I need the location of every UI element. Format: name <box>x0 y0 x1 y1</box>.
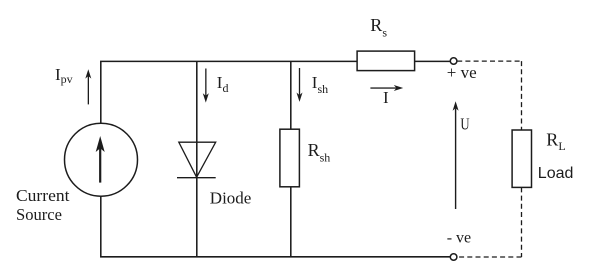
dashed wire top to load <box>457 60 521 62</box>
current source circle <box>65 123 138 196</box>
resistor Rsh body <box>280 129 300 187</box>
dashed wire bottom to terminal <box>457 256 521 258</box>
arrow U voltage up <box>453 101 459 209</box>
svg-text:+ ve: + ve <box>447 63 477 82</box>
wire shunt vertical branch upper <box>290 61 292 129</box>
dashed wire load vertical lower <box>521 187 523 257</box>
arrow I current right <box>370 85 403 91</box>
arrow Id current down <box>203 69 209 103</box>
resistor Rs body <box>357 51 415 71</box>
svg-text:- ve: - ve <box>447 229 471 246</box>
svg-text:I: I <box>383 88 389 107</box>
current source arrow <box>96 136 105 183</box>
dashed wire load vertical upper <box>521 61 523 129</box>
arrow Ipv current up <box>85 69 91 104</box>
svg-text:Current: Current <box>16 186 70 205</box>
svg-text:Diode: Diode <box>210 189 252 208</box>
wire bottom horizontal <box>100 256 450 258</box>
diode D1 cathode bar <box>177 177 216 179</box>
wire top horizontal right of Rs <box>415 60 451 62</box>
wire shunt vertical branch lower <box>290 187 292 257</box>
terminal -ve open circle <box>450 254 457 261</box>
svg-text:Load: Load <box>538 165 574 182</box>
resistor RL load body <box>512 130 531 187</box>
terminal +ve open circle <box>450 58 457 65</box>
wire top horizontal left of Rs <box>100 60 357 62</box>
diode D1 triangle <box>179 142 216 177</box>
wire diode vertical branch <box>196 61 198 256</box>
wire left vertical branch <box>100 61 102 256</box>
svg-text:Source: Source <box>16 205 62 224</box>
arrow Ish current down <box>297 68 303 102</box>
svg-text:U: U <box>460 115 469 134</box>
